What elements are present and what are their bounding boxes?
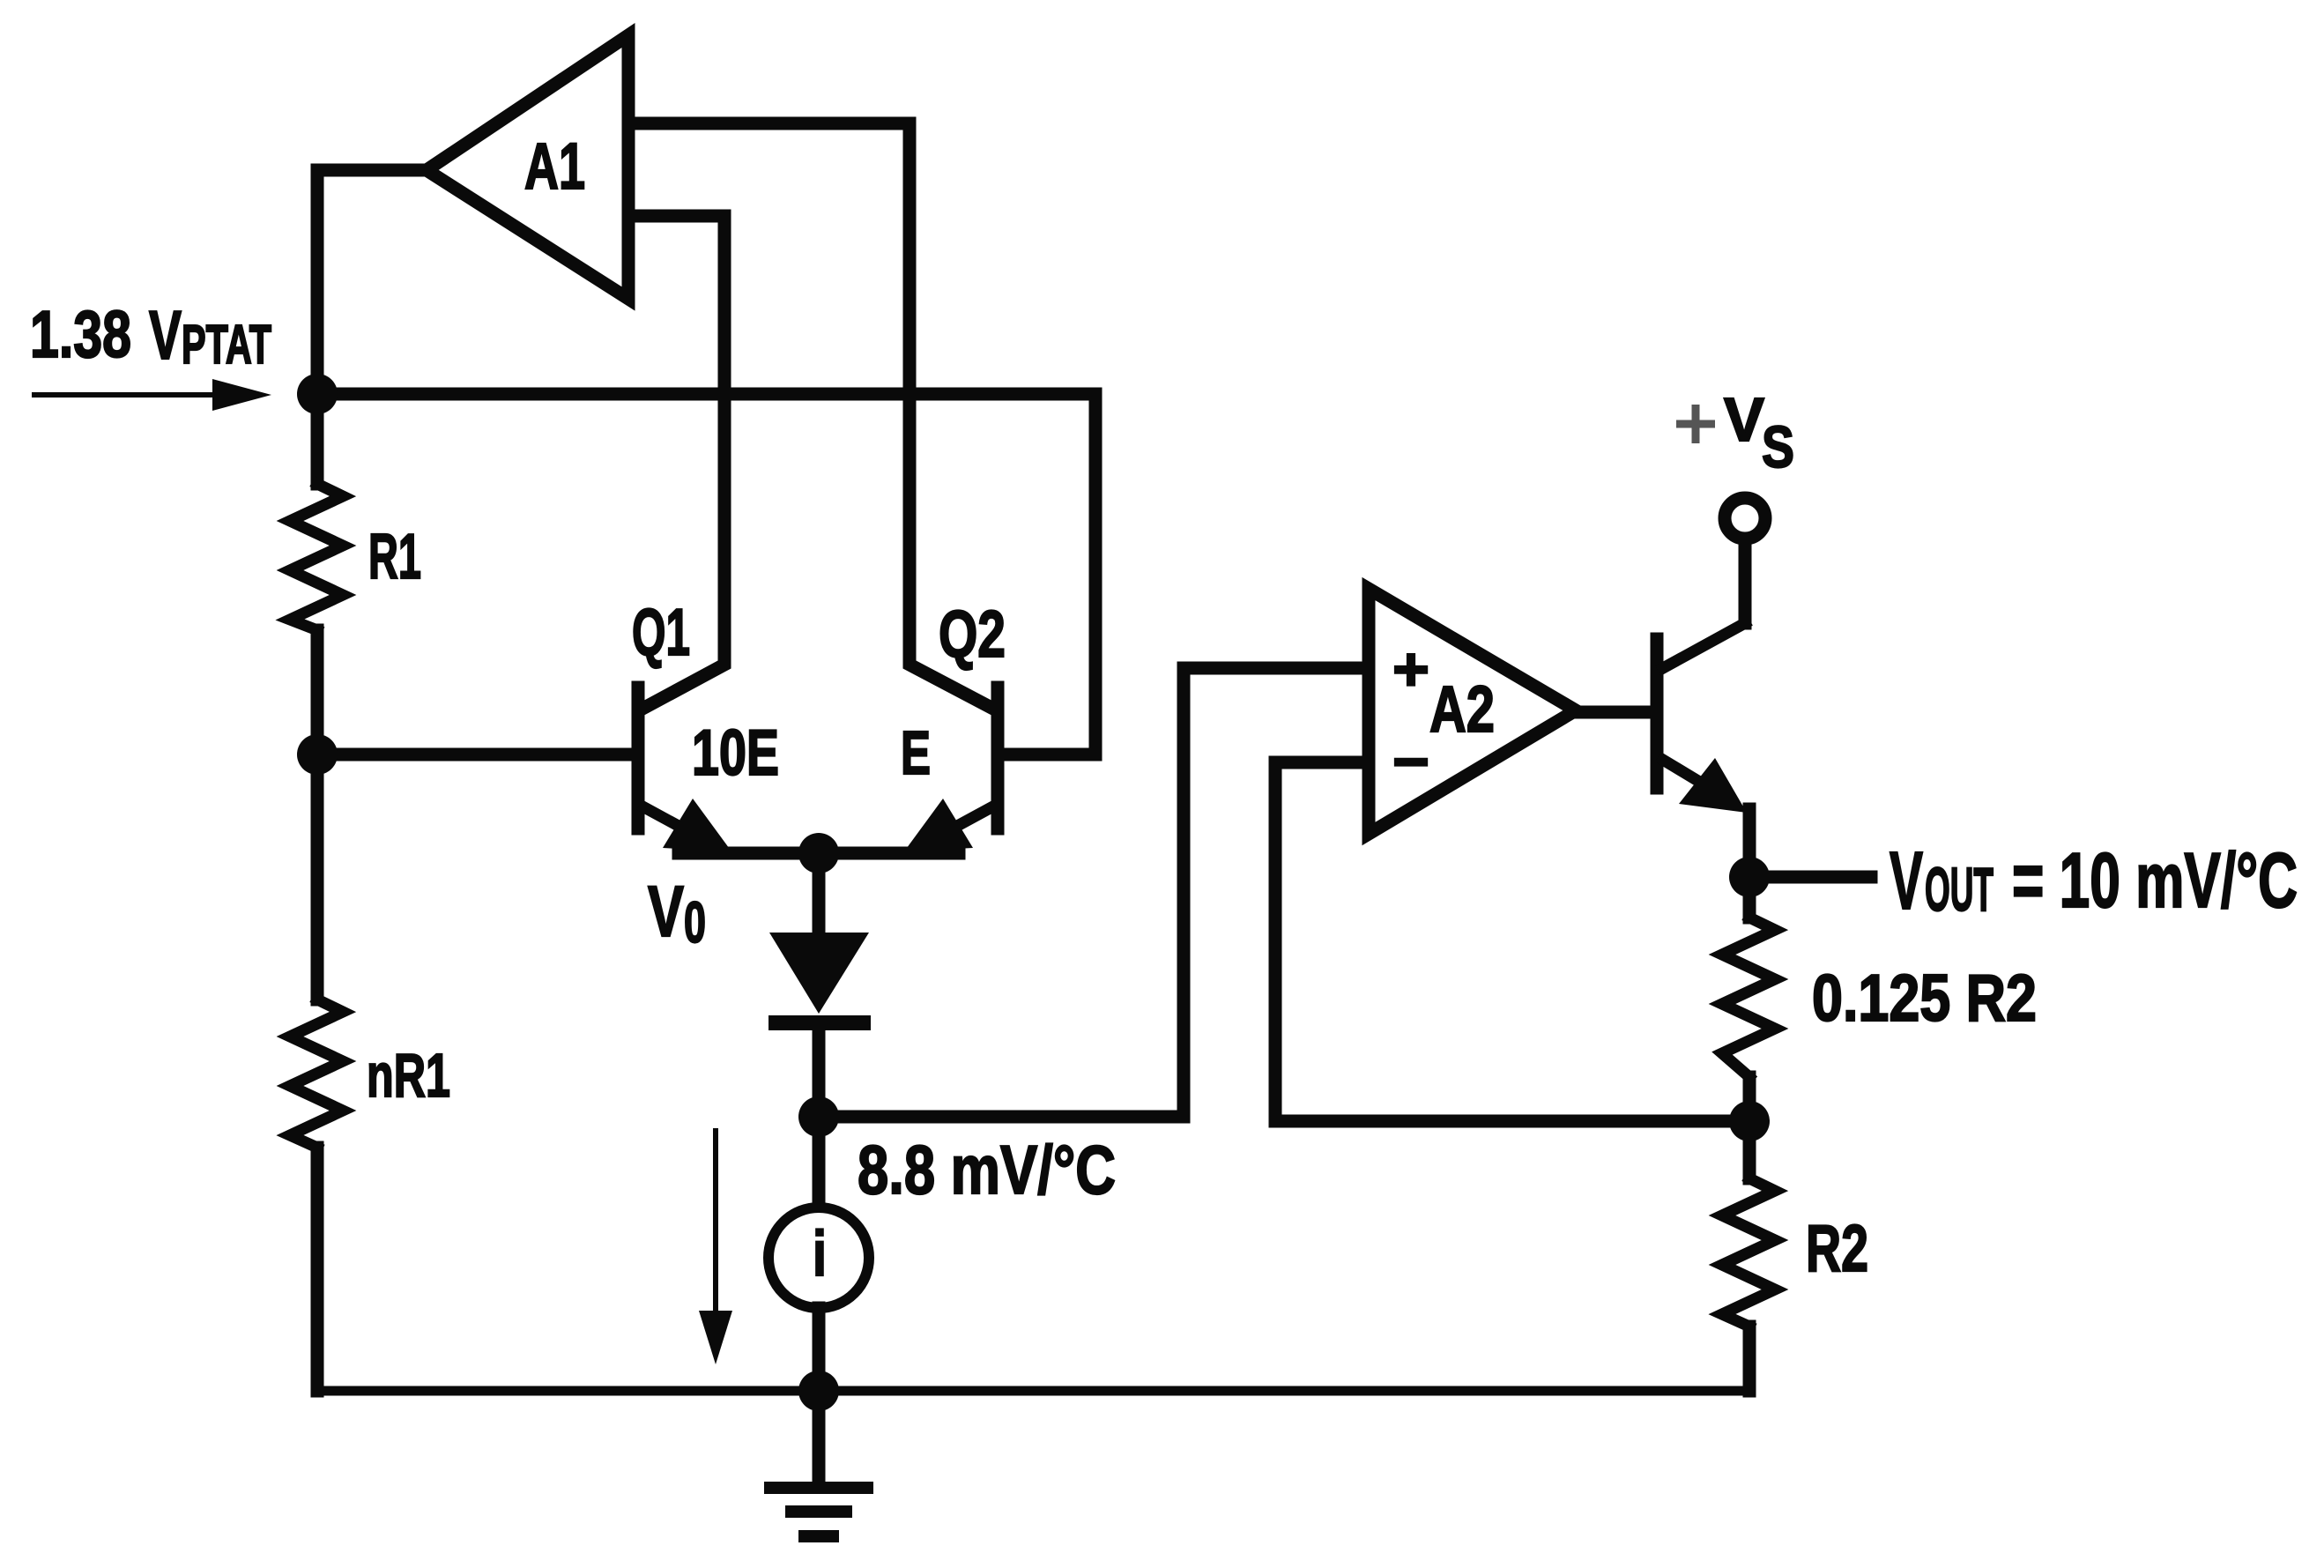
svg-text:A2: A2 xyxy=(1429,673,1495,746)
wire main VPTAT node line xyxy=(317,394,1095,754)
wire A1 output to left rail xyxy=(317,170,427,394)
svg-text:Q1: Q1 xyxy=(632,595,690,669)
svg-text:Q2: Q2 xyxy=(939,597,1006,671)
svg-text:10E: 10E xyxy=(692,717,779,789)
transistor Q1 xyxy=(638,687,731,851)
wire 8.8mV node to A2 plus input xyxy=(819,668,1369,1117)
svg-text:R2: R2 xyxy=(1806,1211,1868,1285)
diode D1 xyxy=(768,933,871,1208)
svg-text:0: 0 xyxy=(684,889,706,955)
wire 0.125R2 top lead xyxy=(1743,877,1756,918)
svg-text:R1: R1 xyxy=(368,522,421,592)
node 8.8mV xyxy=(798,1096,839,1137)
svg-text:V: V xyxy=(648,872,684,952)
resistor nR1 xyxy=(290,1000,343,1148)
terminal +Vs xyxy=(1725,498,1765,539)
wire Q1 base xyxy=(317,748,632,762)
node emitters xyxy=(798,833,839,873)
label +VS xyxy=(1676,385,1794,480)
node R2 junction xyxy=(1729,1101,1770,1141)
svg-text:0.125 R2: 0.125 R2 xyxy=(1812,961,2037,1035)
wire R1 bottom lead xyxy=(311,630,324,754)
svg-text:E: E xyxy=(901,718,931,787)
wire emitters to diode xyxy=(813,853,826,934)
current source i xyxy=(768,1208,869,1308)
current direction arrow xyxy=(699,1131,732,1364)
wire Q3 collector to +Vs xyxy=(1739,545,1752,623)
wire A1 top input to Q2 collector xyxy=(628,123,991,708)
svg-text:A1: A1 xyxy=(524,130,585,203)
svg-text:nR1: nR1 xyxy=(367,1041,450,1110)
svg-text:−: − xyxy=(1392,727,1429,796)
ground xyxy=(764,1391,873,1542)
node R1/nR1/Q1 base xyxy=(297,734,338,775)
op-amp A2 xyxy=(1369,589,1576,834)
label 1.38 VPTAT xyxy=(30,296,271,375)
wire A2 minus input to R2 junction xyxy=(1275,762,1749,1121)
svg-text:V: V xyxy=(149,296,182,374)
label VOUT = 10 mV/°C xyxy=(1890,835,2298,926)
wire current source to ground rail xyxy=(813,1308,826,1391)
op-amp A1 xyxy=(427,35,628,299)
svg-text:V: V xyxy=(1890,835,1923,926)
wire nR1 bottom lead xyxy=(311,1148,324,1391)
svg-text:OUT: OUT xyxy=(1925,855,1994,924)
transistor Q2 xyxy=(904,687,998,851)
svg-text:PTAT: PTAT xyxy=(182,315,271,375)
label V0 xyxy=(648,872,706,955)
resistor R2 xyxy=(1722,1178,1775,1326)
wire Vout tap xyxy=(1749,871,1871,884)
wire bottom ground rail xyxy=(317,1386,1749,1396)
wire nR1 top lead xyxy=(311,754,324,1000)
svg-text:S: S xyxy=(1762,414,1794,480)
wire emitter row xyxy=(679,847,959,860)
svg-text:i: i xyxy=(813,1219,827,1289)
resistor 0.125 R2 xyxy=(1722,918,1775,1077)
input arrow 1.38 VPTAT xyxy=(34,379,271,411)
svg-text:V: V xyxy=(1724,385,1764,454)
svg-text:1.38: 1.38 xyxy=(30,297,131,371)
node ground xyxy=(798,1371,839,1411)
transistor Q3 xyxy=(1657,623,1749,877)
svg-text:+: + xyxy=(1392,635,1429,703)
wire R2 top lead xyxy=(1743,1121,1756,1178)
wire R2 bottom lead xyxy=(1743,1326,1756,1391)
svg-text:= 10 mV/°C: = 10 mV/°C xyxy=(2012,836,2298,924)
node Vout xyxy=(1729,857,1770,897)
node VPTAT xyxy=(297,374,338,414)
wire A1 bottom input to Q1 collector xyxy=(628,216,724,708)
resistor R1 xyxy=(290,484,343,630)
svg-text:8.8 mV/°C: 8.8 mV/°C xyxy=(858,1131,1116,1208)
wire A2 output xyxy=(1576,706,1651,719)
wire R1 top lead xyxy=(311,394,324,484)
wire 0.125R2 bottom lead xyxy=(1743,1077,1756,1121)
